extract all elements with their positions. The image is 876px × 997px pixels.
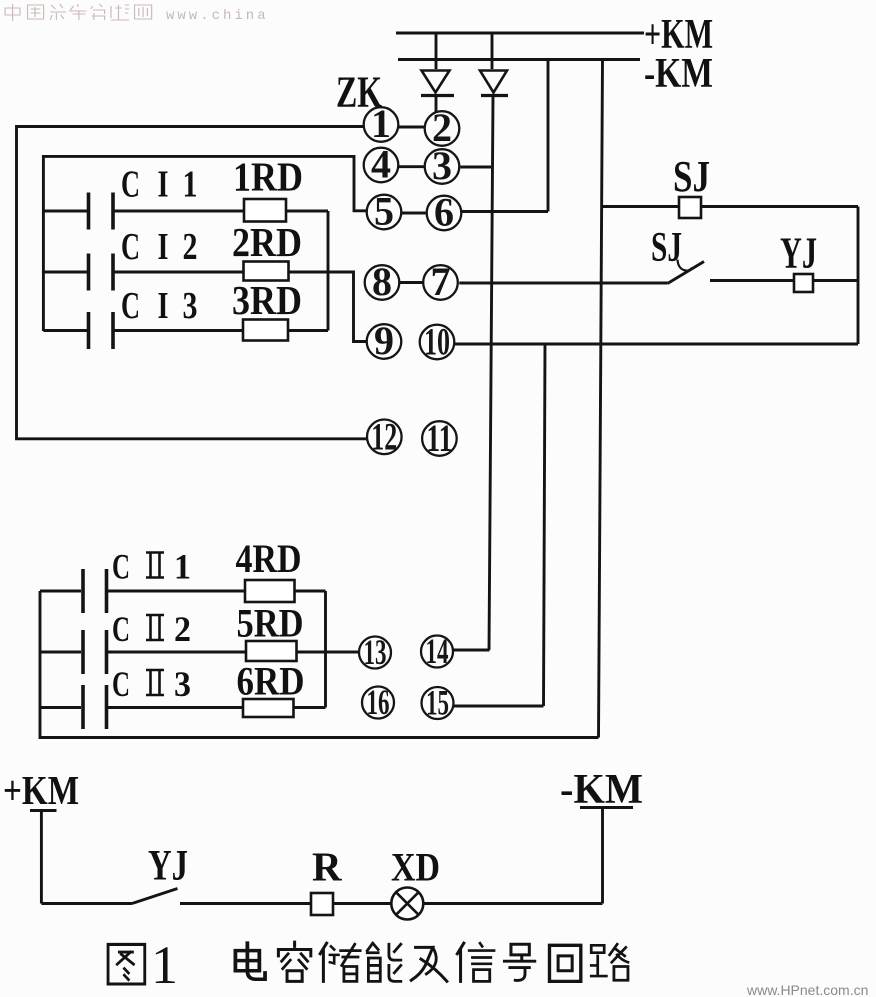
svg-text:I: I bbox=[158, 285, 169, 327]
svg-text:5: 5 bbox=[374, 189, 394, 234]
svg-text:4RD: 4RD bbox=[236, 536, 302, 581]
svg-text:YJ: YJ bbox=[148, 843, 188, 890]
svg-text:R: R bbox=[312, 844, 342, 890]
svg-text:C: C bbox=[121, 226, 140, 268]
svg-text:C: C bbox=[112, 664, 130, 704]
svg-text:15: 15 bbox=[426, 683, 449, 723]
svg-text:9: 9 bbox=[374, 318, 394, 363]
svg-text:8: 8 bbox=[372, 259, 392, 304]
svg-text:I: I bbox=[158, 164, 169, 206]
svg-text:C: C bbox=[112, 609, 130, 649]
svg-text:10: 10 bbox=[424, 321, 450, 364]
svg-text:-KM: -KM bbox=[560, 767, 643, 813]
svg-text:C: C bbox=[121, 285, 140, 327]
svg-text:C: C bbox=[112, 547, 130, 587]
svg-text:I: I bbox=[158, 226, 169, 268]
svg-text:3RD: 3RD bbox=[232, 277, 302, 323]
svg-text:-KM: -KM bbox=[644, 51, 713, 97]
svg-text:14: 14 bbox=[426, 631, 449, 671]
svg-text:www.HPnet.com.cn: www.HPnet.com.cn bbox=[746, 982, 868, 997]
svg-text:6RD: 6RD bbox=[237, 659, 305, 704]
svg-text:4: 4 bbox=[371, 142, 391, 187]
svg-text:C: C bbox=[121, 164, 140, 206]
svg-text:SJ: SJ bbox=[651, 225, 682, 271]
svg-text:3: 3 bbox=[174, 664, 191, 704]
svg-text:YJ: YJ bbox=[780, 229, 817, 278]
svg-text:www.china: www.china bbox=[166, 8, 269, 24]
svg-text:5RD: 5RD bbox=[237, 601, 304, 646]
svg-text:7: 7 bbox=[431, 259, 451, 304]
svg-text:3: 3 bbox=[183, 285, 198, 327]
svg-text:1RD: 1RD bbox=[233, 154, 303, 200]
svg-text:SJ: SJ bbox=[673, 152, 710, 201]
svg-text:11: 11 bbox=[426, 417, 452, 460]
svg-text:2RD: 2RD bbox=[232, 219, 302, 265]
svg-text:2: 2 bbox=[183, 226, 198, 268]
svg-text:12: 12 bbox=[371, 416, 397, 459]
svg-text:1: 1 bbox=[174, 547, 191, 587]
svg-text:6: 6 bbox=[434, 190, 454, 235]
svg-text:1: 1 bbox=[183, 164, 198, 206]
svg-text:XD: XD bbox=[391, 845, 440, 890]
svg-text:3: 3 bbox=[432, 143, 452, 188]
svg-text:1: 1 bbox=[151, 935, 178, 995]
svg-text:+KM: +KM bbox=[3, 767, 79, 813]
svg-text:ZK: ZK bbox=[336, 68, 382, 117]
svg-text:13: 13 bbox=[364, 632, 387, 672]
svg-text:2: 2 bbox=[174, 609, 191, 649]
svg-text:16: 16 bbox=[367, 682, 390, 722]
